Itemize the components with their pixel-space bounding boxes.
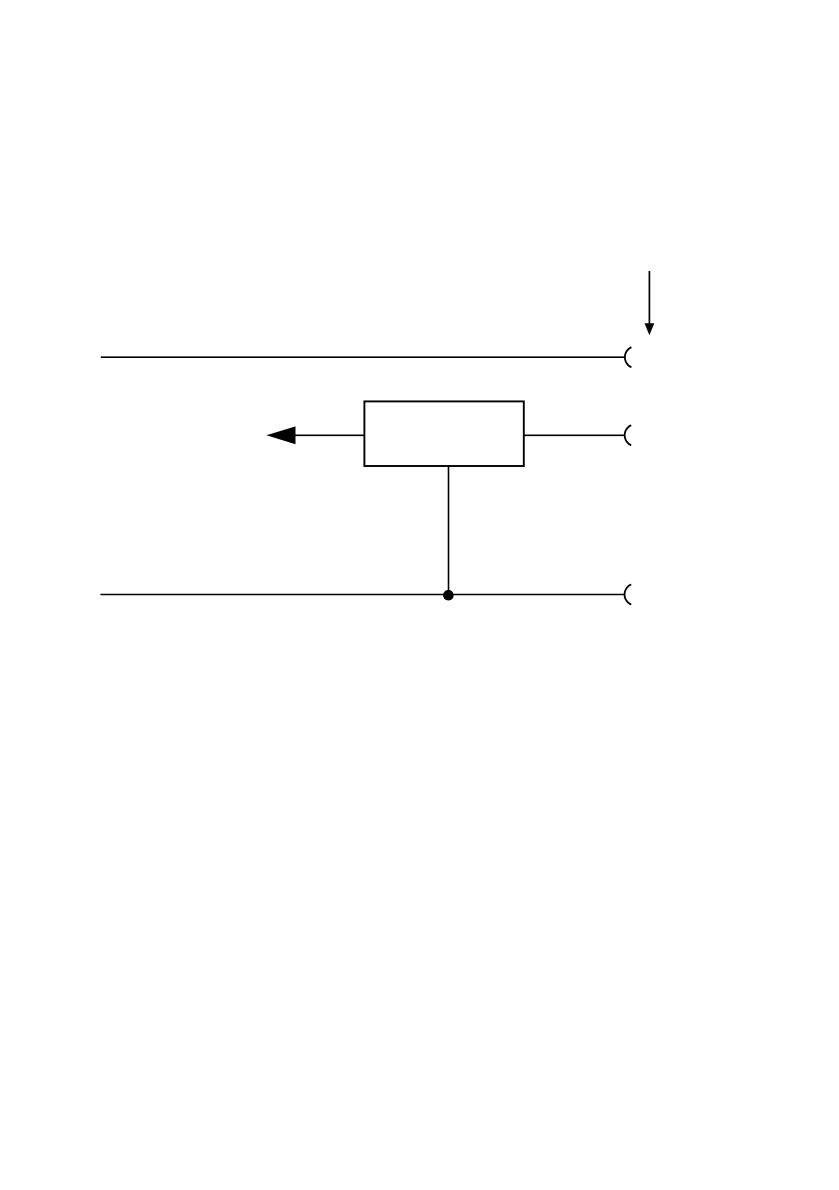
wire top horizontal <box>101 356 625 358</box>
wire vertical from box bottom <box>448 466 450 595</box>
arrow (current direction, pointing down) <box>645 271 655 335</box>
arrowhead (output arrow, pointing left) <box>266 426 295 444</box>
connector middle (open semicircle) <box>625 425 632 445</box>
connector bottom (open semicircle) <box>625 584 632 604</box>
junction dot <box>443 590 454 601</box>
wire from box to right connector <box>524 434 625 436</box>
wire bottom horizontal <box>100 594 624 596</box>
connector top (open semicircle) <box>625 347 632 367</box>
wire from arrow to box <box>293 434 364 436</box>
component box U1 <box>364 401 523 466</box>
